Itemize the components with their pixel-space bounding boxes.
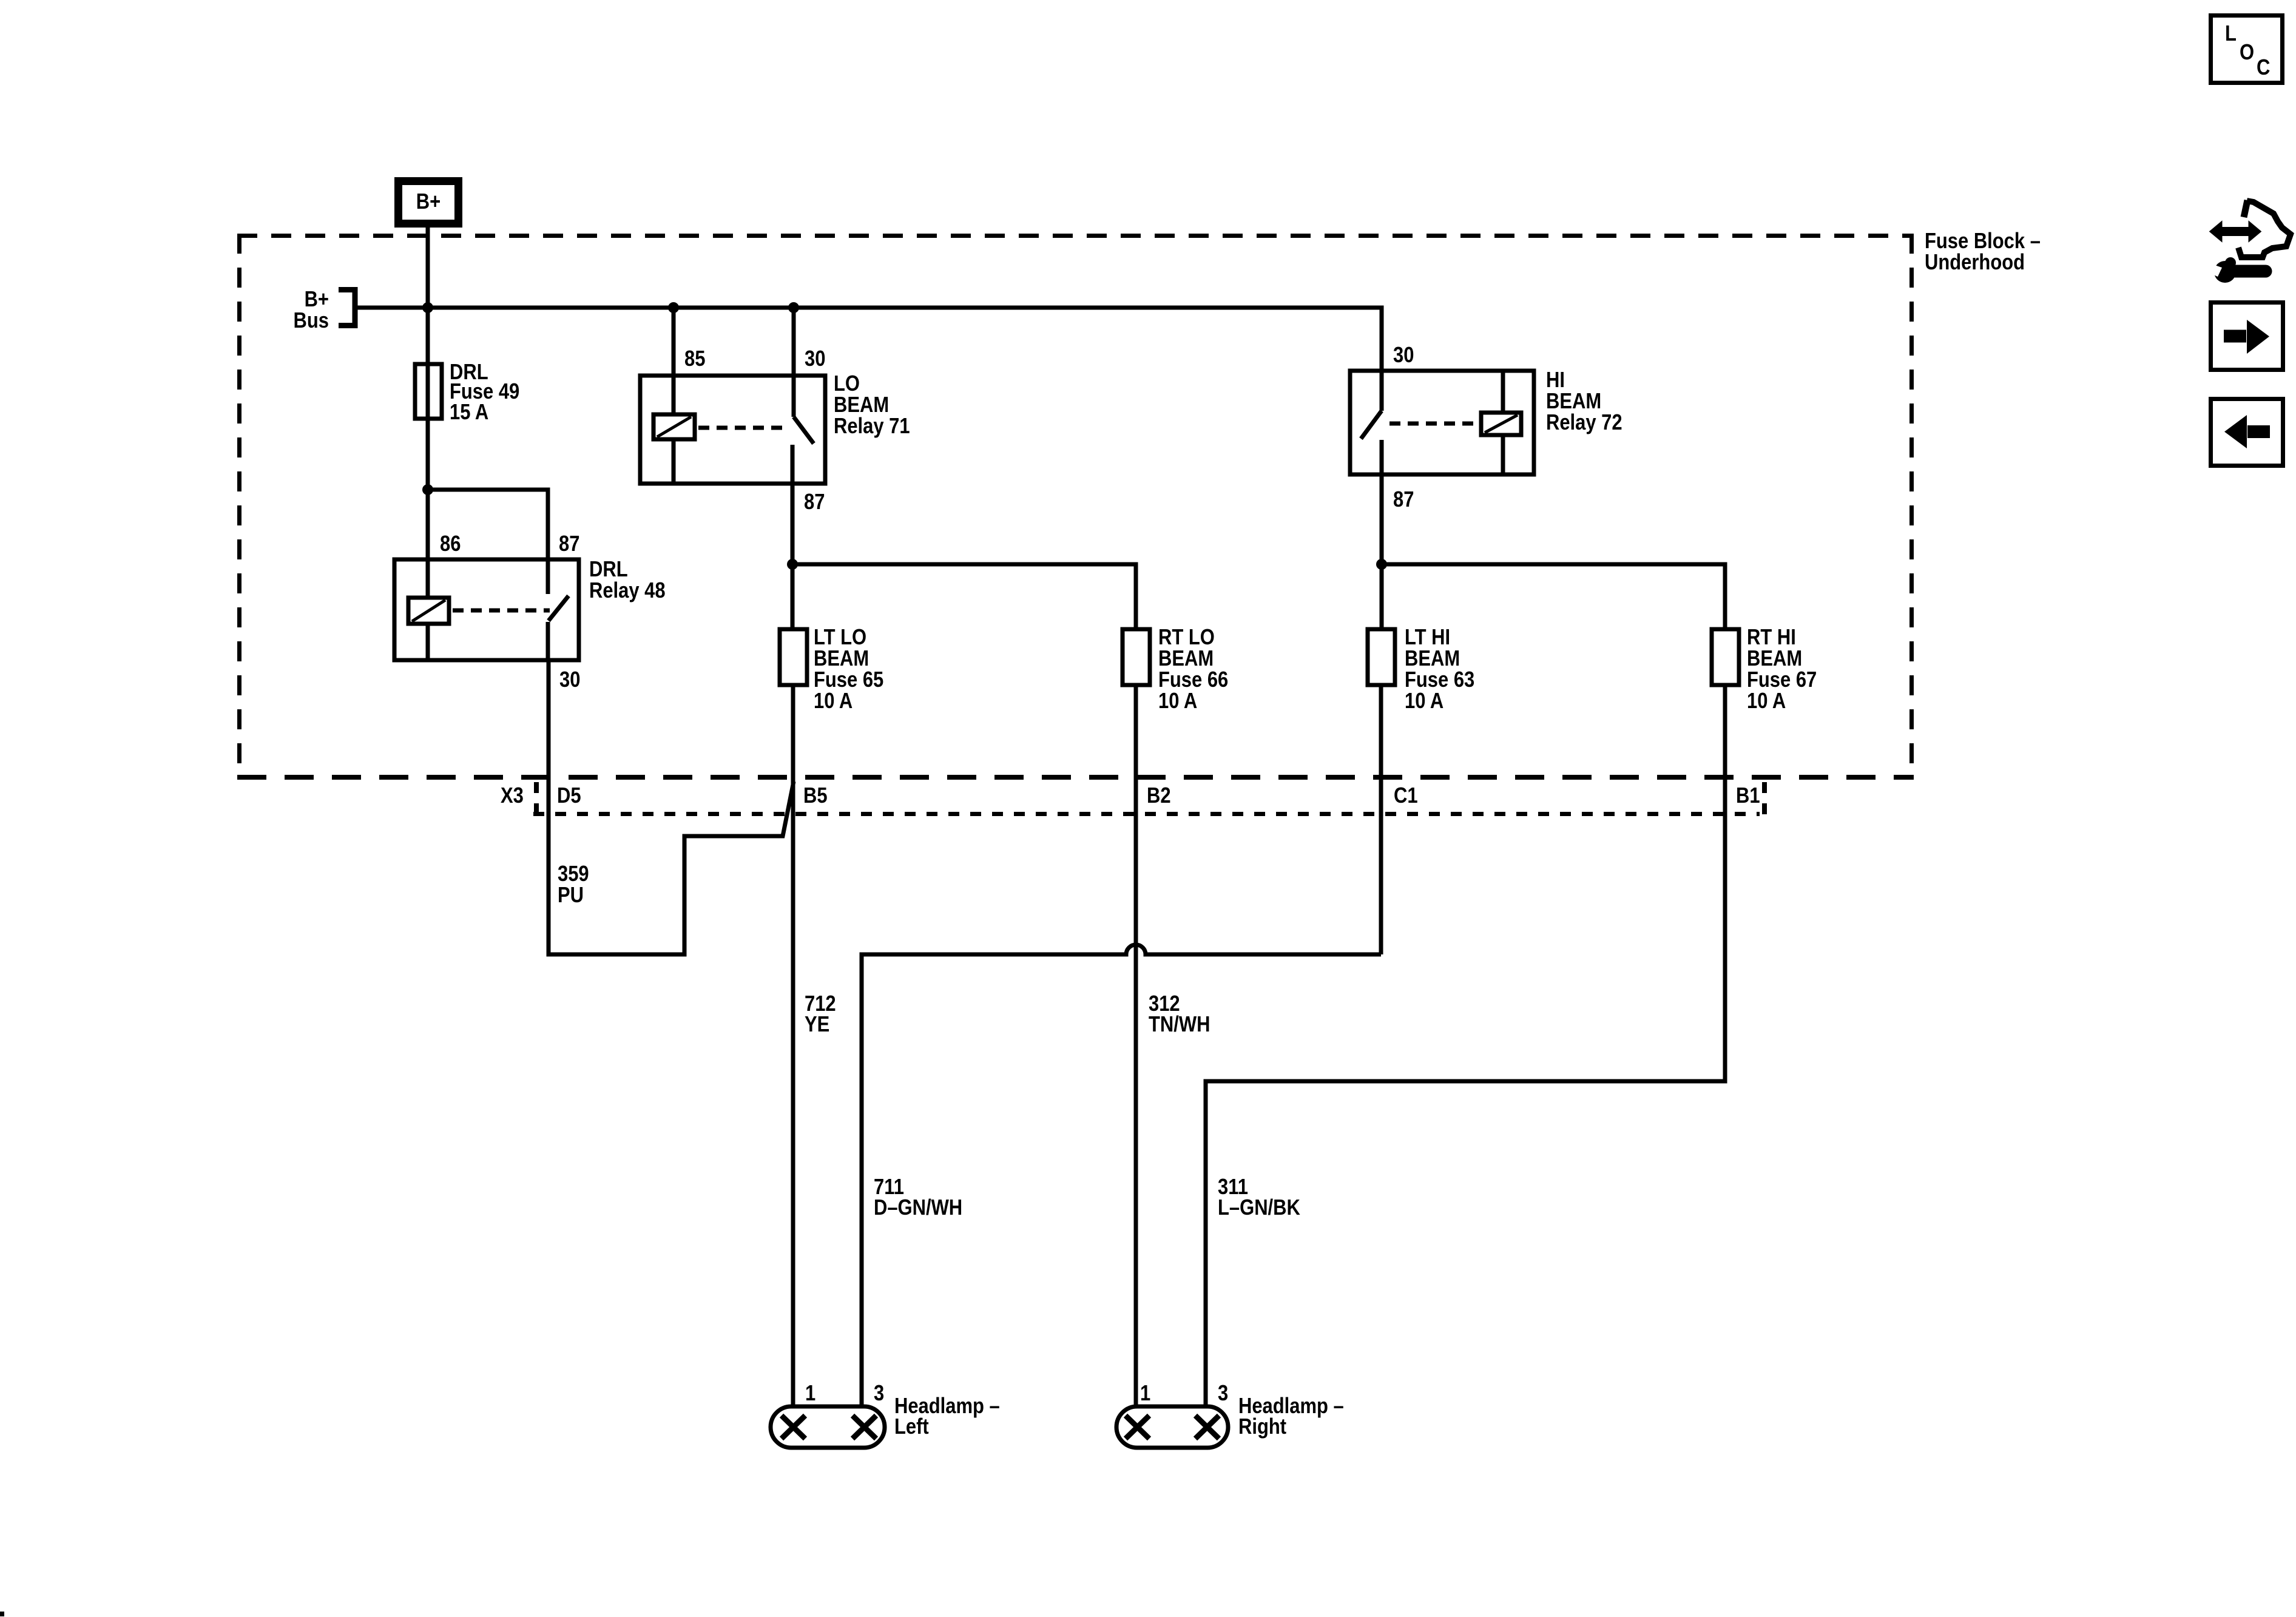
wire relay71 pin87 down to LT LO fuse with branch to RT LO fuse (791, 484, 795, 629)
junction B+ drop / bus (422, 302, 433, 313)
wire 712 YE B5 to left headlamp pin 1 (793, 685, 836, 1406)
svg-text:B+: B+ (305, 288, 329, 312)
wire fuse49 to relay48 branch junction (428, 490, 548, 559)
connector B1 bracket (1762, 782, 1767, 819)
node B+ terminal box (399, 181, 459, 224)
svg-text:3: 3 (1218, 1382, 1228, 1406)
svg-text:BEAM: BEAM (814, 647, 869, 671)
wire B+ bus horizontal to HI beam relay 30 (357, 308, 1382, 371)
svg-text:C1: C1 (1394, 784, 1418, 808)
junction relay71 pin87 / fuse 65-66 branch (787, 559, 798, 570)
svg-text:10 A: 10 A (1158, 689, 1197, 714)
svg-text:85: 85 (684, 347, 705, 371)
svg-text:PU: PU (558, 883, 584, 908)
svg-text:B5: B5 (803, 784, 828, 808)
fuse F63 LT HI BEAM Fuse 63 10A (1368, 626, 1474, 714)
svg-text:HI: HI (1546, 368, 1565, 393)
wire relay48 pin30 to connector D5 and jog to B5 (549, 660, 794, 954)
icon arrow right box (2211, 303, 2283, 370)
svg-text:Fuse 63: Fuse 63 (1405, 668, 1474, 692)
wire relay72 pin87 down to LT HI fuse with branch to RT HI fuse (1380, 474, 1384, 629)
svg-text:BEAM: BEAM (1546, 390, 1601, 414)
wire 711 D-GN/WH C1 to left headlamp pin 3 with hop over B2 (862, 685, 1381, 1406)
svg-text:Right: Right (1238, 1415, 1286, 1439)
wire 312 TN/WH B2 to right headlamp pin 1 (1136, 685, 1210, 1406)
label Fuse Block - Underhood (1925, 229, 2041, 275)
relay K72 HI BEAM Relay 72 (1350, 343, 1622, 512)
stray mark bottom left (0, 1612, 4, 1616)
svg-text:D–GN/WH: D–GN/WH (874, 1196, 962, 1220)
svg-text:15 A: 15 A (450, 400, 488, 425)
junction relay72 pin87 / fuse 63-67 branch (1376, 559, 1387, 570)
svg-text:LT LO: LT LO (814, 626, 866, 650)
svg-text:BEAM: BEAM (1158, 647, 1214, 671)
svg-text:BEAM: BEAM (1747, 647, 1802, 671)
svg-text:Bus: Bus (294, 309, 329, 333)
connector row dotted line (533, 812, 1760, 816)
connector Headlamp Left (771, 1382, 1000, 1448)
svg-text:D5: D5 (557, 784, 581, 808)
svg-text:L: L (2225, 22, 2237, 46)
fuse F65 LT LO BEAM Fuse 65 10A (780, 626, 883, 714)
relay K71 switch and pin 30 wire (698, 308, 814, 484)
wire B+ drop to DRL fuse and relay coil (426, 228, 430, 598)
svg-text:Left: Left (894, 1415, 929, 1439)
svg-text:RT HI: RT HI (1747, 626, 1796, 650)
fuse F49 DRL Fuse 49 15A (415, 360, 519, 425)
svg-text:10 A: 10 A (1747, 689, 1786, 714)
fuse block underhood dashed outline (237, 234, 1914, 780)
svg-text:RT LO: RT LO (1158, 626, 1215, 650)
relay K71 LO BEAM Relay 71 (640, 347, 910, 515)
connector pin labels row (501, 784, 1760, 808)
fuse F66 RT LO BEAM Fuse 66 10A (1123, 626, 1228, 714)
label wire 359 PU (558, 862, 589, 908)
svg-text:BEAM: BEAM (1405, 647, 1460, 671)
svg-text:Fuse Block –: Fuse Block – (1925, 229, 2041, 254)
svg-text:359: 359 (558, 862, 589, 886)
svg-text:Fuse 66: Fuse 66 (1158, 668, 1228, 692)
icon splice/repair (double arrow, panel outline, wrench) (2201, 200, 2291, 283)
svg-text:10 A: 10 A (814, 689, 853, 714)
svg-text:B+: B+ (416, 190, 441, 214)
svg-text:10 A: 10 A (1405, 689, 1443, 714)
relay K48 DRL Relay 48 (394, 532, 666, 692)
relay K71 coil and pin 85 wire (653, 308, 695, 484)
svg-text:C: C (2257, 56, 2270, 80)
svg-text:1: 1 (805, 1382, 815, 1406)
svg-text:30: 30 (805, 347, 825, 371)
svg-text:LO: LO (834, 372, 860, 396)
svg-text:LT HI: LT HI (1405, 626, 1450, 650)
connector X3 bracket (534, 782, 539, 819)
connector Headlamp Right (1116, 1382, 1344, 1448)
svg-text:TN/WH: TN/WH (1149, 1013, 1210, 1037)
relay K48 switch (453, 559, 569, 660)
svg-text:Relay 48: Relay 48 (589, 579, 666, 603)
junction bus / relay71 pin 85 (668, 302, 679, 313)
svg-text:1: 1 (1140, 1382, 1150, 1406)
junction bus / relay71 pin 30 (788, 302, 799, 313)
svg-text:30: 30 (559, 668, 580, 692)
svg-text:YE: YE (805, 1013, 829, 1037)
svg-text:Relay 71: Relay 71 (834, 414, 910, 439)
svg-text:30: 30 (1393, 343, 1414, 368)
svg-text:B1: B1 (1736, 784, 1760, 808)
svg-text:BEAM: BEAM (834, 393, 889, 417)
junction fuse49 out / relay48 branch (422, 484, 433, 495)
relay K72 coil (1481, 371, 1521, 474)
svg-text:Relay 72: Relay 72 (1546, 411, 1622, 435)
svg-text:87: 87 (559, 532, 579, 556)
svg-text:87: 87 (804, 490, 825, 515)
node B+ Bus bracket (294, 288, 355, 333)
relay K72 switch (1361, 371, 1481, 474)
wire 311 L-GN/BK B1 to right headlamp pin 3 (1206, 685, 1725, 1406)
svg-text:Fuse 65: Fuse 65 (814, 668, 883, 692)
fuse F67 RT HI BEAM Fuse 67 10A (1712, 626, 1817, 714)
svg-text:DRL: DRL (589, 558, 628, 582)
svg-text:Underhood: Underhood (1925, 251, 2025, 275)
svg-text:3: 3 (874, 1382, 884, 1406)
svg-text:86: 86 (440, 532, 461, 556)
svg-text:Fuse 67: Fuse 67 (1747, 668, 1817, 692)
svg-text:L–GN/BK: L–GN/BK (1218, 1196, 1300, 1220)
svg-text:X3: X3 (501, 784, 524, 808)
relay K48 coil (408, 598, 449, 660)
svg-text:O: O (2240, 41, 2254, 65)
svg-text:B2: B2 (1147, 784, 1171, 808)
icon LOC box top right (2211, 16, 2283, 83)
svg-text:87: 87 (1393, 488, 1414, 512)
icon arrow left box (2211, 399, 2283, 466)
